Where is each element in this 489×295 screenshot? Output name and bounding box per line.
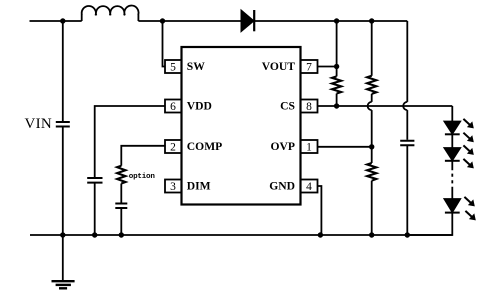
LED D2 cathode bar bbox=[445, 133, 460, 135]
wire GND pin drop bbox=[318, 186, 322, 235]
pin 8 box bbox=[301, 100, 318, 113]
svg-text:2: 2 bbox=[170, 142, 176, 154]
wire node D to R3 bbox=[371, 147, 373, 163]
wire top right corner down bbox=[406, 21, 408, 102]
wire hop to OVP node bbox=[371, 110, 373, 147]
wire CS line bbox=[318, 105, 453, 107]
wire VIN column lower bbox=[62, 127, 64, 235]
wire VIN column upper bbox=[62, 21, 64, 121]
wire hop over CS at C3 column bbox=[403, 102, 407, 110]
wire top rail right bbox=[254, 20, 407, 22]
wire node A to R1 bbox=[336, 67, 338, 77]
wire top to node A bbox=[336, 21, 338, 67]
wire R4 to C4 bbox=[120, 184, 122, 203]
svg-text:5: 5 bbox=[170, 62, 176, 74]
svg-text:VIN: VIN bbox=[25, 116, 53, 132]
svg-text:option: option bbox=[129, 173, 156, 181]
capacitor C1 (input) bbox=[56, 122, 70, 127]
svg-text:COMP: COMP bbox=[187, 140, 222, 153]
pin 6 box bbox=[165, 100, 182, 113]
wire D3 to dashed bbox=[451, 161, 453, 167]
wire VOUT to node A bbox=[318, 66, 337, 68]
svg-text:DIM: DIM bbox=[187, 180, 211, 193]
svg-text:6: 6 bbox=[170, 101, 176, 113]
wire R1 to CS node bbox=[336, 94, 338, 107]
svg-text:VDD: VDD bbox=[187, 100, 212, 113]
svg-text:CS: CS bbox=[280, 100, 295, 113]
diode D1 bbox=[241, 11, 253, 31]
wire OVP to node D bbox=[318, 146, 372, 148]
wire R3 to ground rail bbox=[371, 181, 373, 235]
wire LED column bottom bbox=[407, 213, 452, 235]
pin 7 box bbox=[301, 60, 318, 73]
capacitor C3 (output) bbox=[400, 141, 414, 145]
capacitor C4 (COMP) bbox=[115, 204, 127, 209]
node rail VIN bbox=[60, 232, 65, 237]
LED D3 cathode bar bbox=[445, 160, 460, 162]
wire hop over CS at R2 column bbox=[368, 102, 372, 110]
pin 5 box bbox=[165, 60, 182, 73]
node D (OVP junction) bbox=[369, 144, 374, 149]
LED D3 arrows bbox=[463, 145, 473, 168]
node rail GND pin bbox=[318, 232, 323, 237]
resistor R2 bbox=[367, 76, 376, 94]
wire VDD to C2 bbox=[95, 106, 165, 177]
node C (top, R2) bbox=[369, 18, 374, 23]
wire SW drop bbox=[163, 21, 166, 67]
node: SW junction bbox=[160, 18, 165, 23]
node rail R3 bbox=[369, 232, 374, 237]
wire top rail middle bbox=[138, 20, 241, 22]
resistor R1 bbox=[332, 76, 341, 93]
LED D4 cathode bar bbox=[445, 212, 460, 214]
node rail C4 bbox=[119, 232, 124, 237]
wire LED column top bbox=[451, 106, 453, 122]
wire dashed to D4 bbox=[451, 190, 453, 199]
wire ground rail bbox=[30, 234, 452, 236]
ground symbol bbox=[62, 235, 64, 281]
wire top rail left bbox=[30, 20, 82, 22]
IC body U1 bbox=[182, 47, 301, 205]
wire C3 to ground rail bbox=[406, 146, 408, 235]
node: input junction bbox=[60, 18, 65, 23]
node rail C2 bbox=[92, 232, 97, 237]
LED D4 bbox=[445, 199, 461, 212]
node A (VOUT) bbox=[334, 64, 339, 69]
svg-text:GND: GND bbox=[269, 180, 295, 193]
svg-text:VOUT: VOUT bbox=[262, 60, 296, 73]
inductor L1 bbox=[82, 6, 139, 21]
wire C4 to ground rail bbox=[120, 209, 122, 235]
resistor R4 option bbox=[117, 166, 125, 184]
pin 2 box bbox=[165, 140, 182, 153]
LED D2 bbox=[445, 122, 461, 134]
svg-text:4: 4 bbox=[306, 181, 312, 193]
svg-text:8: 8 bbox=[306, 101, 312, 113]
wire top to R2 bbox=[371, 21, 373, 76]
wire dashed (more LEDs) bbox=[451, 167, 453, 190]
svg-text:1: 1 bbox=[306, 142, 312, 154]
svg-text:OVP: OVP bbox=[271, 140, 295, 153]
LED D4 arrows bbox=[464, 197, 475, 221]
node B (CS junction) bbox=[334, 103, 339, 108]
svg-text:7: 7 bbox=[306, 62, 312, 74]
wire R2 to hop bbox=[371, 94, 373, 102]
resistor R3 bbox=[367, 163, 376, 181]
svg-text:3: 3 bbox=[170, 181, 176, 193]
wire D2 to D3 bbox=[451, 134, 453, 148]
node: top rail R1 tap bbox=[334, 18, 339, 23]
pin 3 box bbox=[165, 180, 182, 193]
wire COMP branch bbox=[121, 146, 165, 166]
svg-text:SW: SW bbox=[187, 60, 205, 73]
pin 1 box bbox=[301, 140, 318, 153]
LED D3 bbox=[445, 148, 461, 160]
capacitor C2 (VDD) bbox=[87, 178, 102, 183]
LED D2 arrows bbox=[463, 119, 473, 142]
node rail C3 bbox=[405, 232, 410, 237]
pin 4 box bbox=[301, 180, 318, 193]
wire C2 to ground rail bbox=[94, 184, 96, 236]
diode D1 cathode bar bbox=[253, 10, 255, 31]
wire hop to C3 bbox=[406, 110, 408, 140]
